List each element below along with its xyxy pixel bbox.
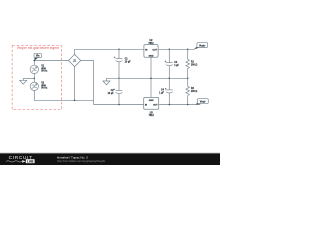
svg-text:10 µF: 10 µF: [125, 62, 132, 64]
node: U2/U3 gnd at mid rail: [150, 78, 152, 80]
node: C1 top: [118, 49, 120, 51]
svg-text:50 Hz: 50 Hz: [41, 88, 48, 90]
ground (input side): [20, 78, 27, 84]
capacitor C1: [116, 49, 123, 78]
wire: V1 top to bridge left (AC1): [34, 61, 68, 66]
resistor R2: [186, 78, 189, 104]
resistor R1: [186, 49, 189, 78]
svg-text:OUT: OUT: [152, 49, 157, 51]
wire: mid ground rail: [106, 77, 187, 79]
wire: top plus rail: [75, 49, 144, 54]
capacitor C3: [166, 49, 173, 78]
svg-text:10 µF: 10 µF: [108, 93, 115, 95]
CircuitLab logo: [6, 155, 35, 164]
label V1 value: [41, 65, 48, 72]
label V2 value: [41, 82, 48, 89]
svg-text:Vout+: Vout+: [199, 44, 206, 47]
node: C3 top: [169, 49, 171, 51]
wire: center tap to ground: [23, 77, 34, 79]
svg-text:7912: 7912: [149, 115, 155, 117]
label R1 value: [191, 61, 198, 66]
label C3 value: [174, 62, 179, 67]
wire: V1 bottom to mid tap: [33, 74, 35, 79]
voltage source V2: [30, 78, 38, 90]
wire: V2 bottom to bridge AC2 return: [34, 91, 93, 101]
label C2 value: [108, 90, 115, 95]
wire: U3 OUT rail: [159, 104, 201, 106]
node: C3/C4 mid rail: [169, 78, 171, 80]
node: R1/R2 mid: [187, 78, 189, 80]
capacitor C4: [166, 78, 173, 104]
node: R1 top: [187, 49, 189, 51]
regulator U2 7812: [144, 40, 158, 57]
capacitor C2: [116, 78, 123, 104]
node flag Vout-: [196, 99, 208, 105]
svg-text:1 µF: 1 µF: [174, 65, 179, 67]
svg-text:GND: GND: [149, 55, 154, 57]
node: C4 bottom: [169, 104, 171, 106]
wire: bridge right (minus) down to bottom rail: [81, 61, 94, 105]
svg-text:OUT: OUT: [153, 104, 158, 106]
svg-text:Vout-: Vout-: [200, 100, 206, 103]
wire: U2 GND down to mid rail and U3 GND: [150, 57, 152, 97]
label R2 value: [191, 88, 198, 93]
node: C2 bottom: [118, 104, 120, 106]
node: V1 top junction: [34, 60, 36, 62]
node: center tap junction: [34, 78, 36, 80]
regulator U3 7912: [144, 97, 159, 117]
wire: U2 OUT rail: [158, 48, 194, 50]
node: mid rail at C1/C2: [118, 78, 120, 80]
bottom minus rail: [94, 104, 144, 106]
node flag Vin at V1 top: [34, 53, 41, 61]
label C1 value: [125, 59, 132, 64]
wire: bridge bottom (AC2) down to return: [74, 67, 76, 101]
svg-text:Vin: Vin: [36, 56, 40, 58]
node: R2 bottom: [187, 104, 189, 106]
node: AC2 junction: [74, 100, 76, 102]
annotation box (red dashed): [12, 46, 61, 110]
ground (mid rail): [103, 78, 110, 85]
svg-text:100 Ω: 100 Ω: [191, 64, 198, 66]
svg-text:100 Ω: 100 Ω: [191, 91, 198, 93]
voltage source V1: [30, 65, 38, 73]
svg-text:1 µF: 1 µF: [159, 92, 164, 94]
bridge rectifier D1 (diamond): [69, 54, 81, 66]
svg-text:http://circuitlab.com/cpqjhajv: http://circuitlab.com/cpqjhajvdybfeq2k: [57, 159, 106, 163]
svg-text:50 Hz: 50 Hz: [41, 71, 48, 73]
svg-text:LAB: LAB: [27, 160, 34, 164]
label C4 value: [159, 89, 164, 95]
svg-text:Regler mit gab bekert elgent: Regler mit gab bekert elgent: [17, 46, 59, 50]
node flag Vout+: [193, 43, 207, 50]
svg-text:GND: GND: [149, 100, 154, 102]
svg-text:7812: 7812: [148, 43, 154, 45]
